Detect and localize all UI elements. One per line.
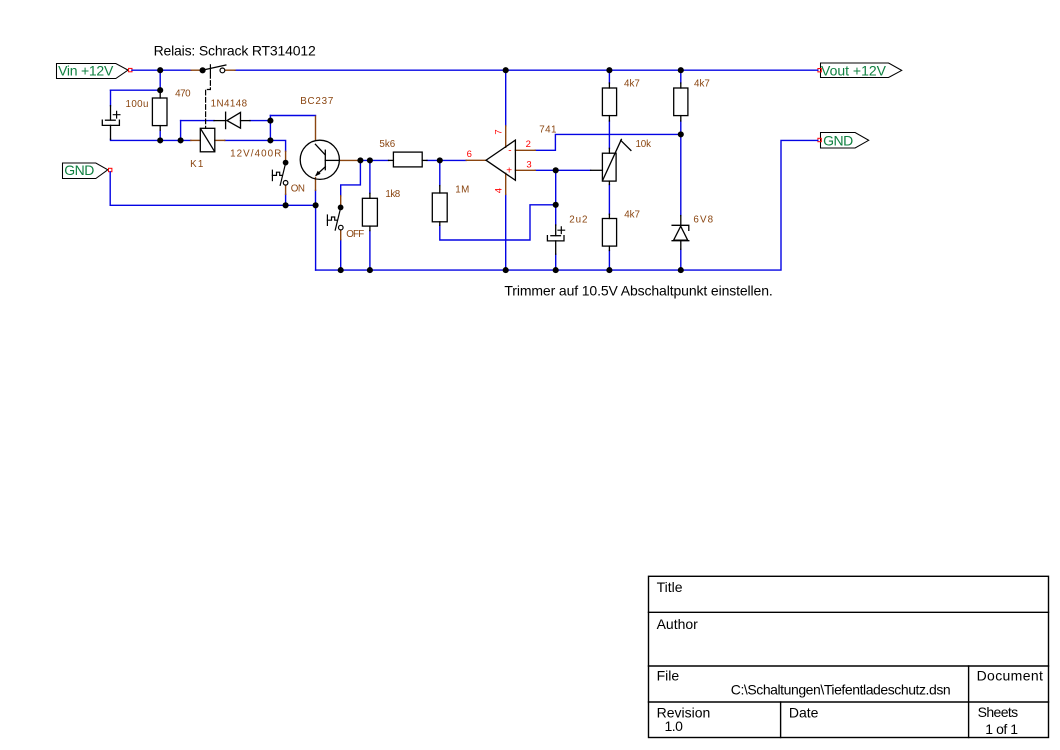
relay actuator dashed link: [206, 74, 211, 129]
pin stub: [339, 159, 360, 161]
wire: [608, 251, 610, 271]
svg-text:1.0: 1.0: [665, 718, 684, 734]
junction: [338, 267, 344, 273]
flag GND right: [818, 132, 869, 148]
pin stub: [340, 230, 342, 240]
wire op-amp pins: [506, 70, 681, 270]
svg-text:BC237: BC237: [300, 96, 334, 107]
junction: [313, 202, 319, 208]
flag Vin +12V: [57, 62, 133, 78]
wire: [341, 160, 361, 196]
wire: [535, 134, 681, 150]
zener diode 6V8: [672, 216, 689, 250]
wire: [225, 140, 286, 151]
wire: [439, 160, 441, 185]
wire: [235, 69, 818, 71]
junction: [157, 67, 163, 73]
svg-text:4k7: 4k7: [624, 209, 640, 220]
wire: [111, 89, 161, 91]
junction: [437, 157, 443, 163]
wire top rail: [111, 70, 818, 106]
pin stub: [215, 139, 225, 141]
wire: [270, 115, 315, 117]
resistor 1M: [432, 186, 447, 226]
junction: [553, 167, 559, 173]
title block: [649, 576, 1049, 737]
svg-text:GND: GND: [64, 162, 94, 178]
wire: [680, 70, 682, 83]
svg-text:741: 741: [539, 124, 557, 135]
svg-text:7: 7: [494, 129, 505, 135]
svg-text:Date: Date: [789, 705, 819, 721]
wire: [110, 172, 315, 205]
resistor 4k7 third: [602, 214, 616, 250]
junction: [157, 137, 163, 143]
wire: [608, 70, 610, 83]
diode 1N4148: [214, 112, 250, 128]
svg-text:Trimmer auf 10.5V Abschaltpunk: Trimmer auf 10.5V Abschaltpunkt einstell…: [504, 282, 772, 298]
svg-text:Document: Document: [977, 668, 1044, 684]
wire: [250, 120, 270, 122]
junction: [157, 87, 163, 93]
wire: [680, 121, 682, 216]
wire: [505, 194, 507, 270]
wire: [369, 231, 371, 271]
junction: [678, 131, 684, 137]
resistor 4k7 second: [674, 83, 688, 121]
wire GND-left rail: [110, 172, 315, 270]
wire: [180, 121, 182, 141]
svg-text:2: 2: [526, 139, 532, 150]
wire ON branch: [285, 194, 287, 205]
junction: [283, 202, 289, 208]
wire base node: [341, 160, 467, 270]
svg-text:Relais: Schrack RT314012: Relais: Schrack RT314012: [154, 43, 316, 59]
pin stub: [505, 126, 507, 147]
wire: [316, 140, 818, 270]
svg-text:GND: GND: [823, 132, 853, 148]
svg-text:6V8: 6V8: [693, 215, 714, 226]
wire: [555, 254, 557, 270]
capacitor 100u: [102, 106, 120, 140]
junction: [503, 267, 509, 273]
junction: [267, 118, 273, 124]
wire: [535, 169, 590, 171]
svg-text:4: 4: [493, 187, 504, 193]
svg-text:4k7: 4k7: [624, 78, 640, 89]
relay coil K1: [200, 128, 215, 152]
relay contact switch S1: [200, 65, 226, 73]
resistor 1k8: [362, 193, 377, 230]
junction dots: [157, 67, 684, 273]
wire: [608, 121, 610, 148]
wire: [427, 159, 466, 161]
junction: [357, 157, 363, 163]
svg-text:ON: ON: [291, 183, 305, 194]
wire: [285, 194, 287, 205]
wire bottom rail: [316, 140, 818, 270]
pin stubs brown: [191, 70, 535, 240]
junction: [553, 202, 559, 208]
pin stub: [315, 116, 317, 140]
junction: [606, 67, 612, 73]
wire: [110, 90, 112, 106]
wire relay rail: [111, 121, 286, 152]
resistor 5k6: [389, 152, 428, 167]
wire: [505, 70, 507, 126]
wire: [440, 205, 556, 240]
svg-text:Title: Title: [657, 579, 683, 595]
junction: [503, 67, 509, 73]
pin stub: [191, 139, 201, 141]
junction: [553, 267, 559, 273]
pin stub: [515, 149, 535, 151]
svg-text:6: 6: [467, 149, 473, 160]
svg-text:12V/400R: 12V/400R: [230, 149, 282, 160]
pin stub: [225, 69, 235, 71]
svg-text:Sheets: Sheets: [978, 704, 1019, 720]
pin stub: [285, 185, 287, 194]
svg-text:Vin +12V: Vin +12V: [58, 62, 114, 78]
resistor 470: [152, 93, 167, 130]
svg-text:5k6: 5k6: [379, 139, 395, 150]
svg-text:1M: 1M: [455, 184, 469, 195]
wire: [181, 120, 214, 122]
svg-text:-: -: [508, 146, 512, 157]
svg-text:OFF: OFF: [346, 229, 364, 240]
svg-text:K1: K1: [190, 159, 204, 170]
pin stub: [466, 159, 486, 161]
pin stub: [285, 151, 287, 160]
svg-text:1 of 1: 1 of 1: [985, 721, 1018, 737]
junction: [678, 267, 684, 273]
wire: [340, 240, 342, 270]
junction: [367, 267, 373, 273]
pin stub: [515, 169, 535, 171]
wire: [111, 139, 191, 140]
svg-text:1k8: 1k8: [385, 189, 400, 200]
svg-text:1N4148: 1N4148: [211, 99, 248, 110]
svg-text:470: 470: [175, 89, 191, 100]
op-amp U1 741: [486, 140, 515, 180]
switch OFF: [327, 205, 343, 230]
wire: [555, 170, 557, 225]
wire: [159, 130, 161, 140]
wire: [608, 185, 610, 215]
switch ON: [272, 160, 288, 185]
wire: [369, 160, 371, 193]
svg-text:File: File: [657, 668, 680, 684]
svg-text:Author: Author: [657, 616, 699, 632]
flag GND left: [63, 162, 112, 178]
wire divider chain: [609, 70, 680, 270]
svg-text:3: 3: [526, 159, 532, 170]
capacitor 2u2: [547, 225, 564, 254]
svg-text:+: +: [506, 165, 512, 176]
pin stub: [505, 173, 507, 194]
svg-text:2u2: 2u2: [569, 214, 588, 225]
junction: [367, 157, 373, 163]
flag Vout +12V: [818, 62, 902, 78]
wire: [132, 69, 191, 71]
wire: [315, 190, 317, 205]
wire: [680, 249, 682, 270]
pin stub: [191, 69, 200, 71]
junction: [178, 137, 184, 143]
junction: [606, 267, 612, 273]
svg-text:10k: 10k: [636, 139, 652, 150]
junction: [267, 137, 273, 143]
svg-text:Vout +12V: Vout +12V: [821, 62, 887, 78]
trimmer 10k: [591, 139, 631, 184]
wire 1M node: [440, 160, 556, 240]
pin stub: [315, 178, 317, 191]
wire: [360, 159, 388, 161]
pin stub: [340, 196, 342, 205]
wire: [159, 70, 161, 93]
wire diode node: [181, 116, 316, 141]
svg-text:100u: 100u: [126, 99, 149, 110]
resistor 4k7 first: [602, 83, 616, 121]
svg-text:C:\Schaltungen\Tiefentladeschu: C:\Schaltungen\Tiefentladeschutz.dsn: [731, 682, 950, 698]
wire: [315, 205, 317, 270]
svg-text:4k7: 4k7: [694, 78, 710, 89]
wire: [269, 116, 271, 141]
junction: [678, 67, 684, 73]
transistor Q1 BC237: [300, 140, 339, 179]
